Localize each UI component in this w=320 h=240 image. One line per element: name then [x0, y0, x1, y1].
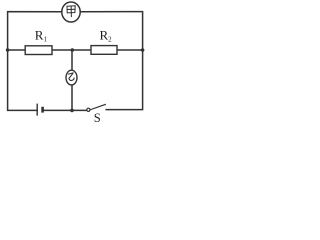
meter 甲 dial symbol 甲	[67, 6, 75, 17]
svg-text:R1: R1	[35, 28, 48, 44]
battery BT1 short plate (-)	[41, 107, 44, 113]
battery BT1 long plate (+)	[36, 104, 38, 116]
meter 甲 (U1) body	[62, 2, 80, 22]
node junction center-mid	[71, 48, 75, 52]
wire center node to R2	[72, 49, 91, 51]
wire R2 to right vertical	[117, 49, 143, 51]
switch S pivot	[87, 108, 90, 111]
meter 乙 (U2) body	[66, 70, 77, 85]
resistor R2 body	[91, 46, 117, 55]
wire bottom from battery to switch	[44, 109, 87, 111]
node junction right-mid	[141, 48, 145, 52]
wire left vertical lower segment	[8, 50, 38, 110]
svg-text:R2: R2	[100, 28, 113, 44]
meter 乙 dial symbol 乙	[68, 73, 74, 81]
svg-text:S: S	[94, 111, 101, 125]
wire top-right segment	[80, 12, 142, 50]
wire meter 乙 down to bottom node	[71, 85, 73, 111]
wire center node down to meter 乙	[71, 50, 73, 71]
resistor R1 body	[25, 46, 52, 55]
node junction left-mid	[6, 48, 10, 52]
wire R1 to center node	[52, 49, 72, 51]
wire top-left segment	[8, 12, 62, 50]
node junction bottom-center	[70, 109, 74, 113]
wire bottom right of switch	[106, 50, 142, 110]
wire mid-left to R1	[8, 49, 26, 51]
switch S lever	[90, 104, 106, 111]
